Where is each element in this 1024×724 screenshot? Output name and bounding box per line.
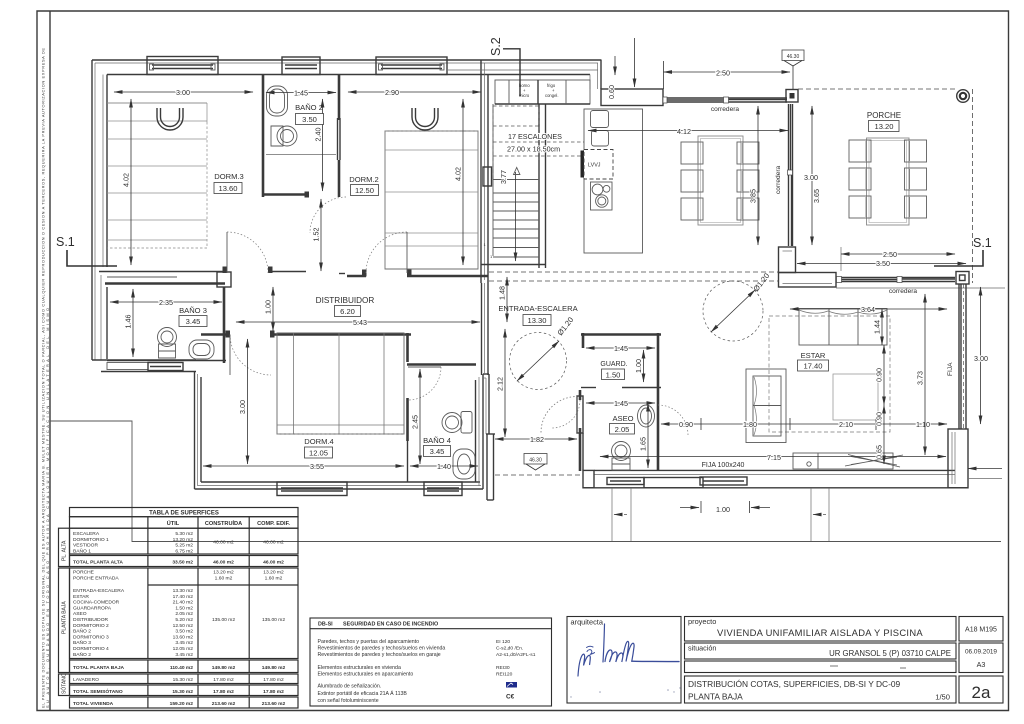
svg-text:Revestimientos de paredes y te: Revestimientos de paredes y techos/suelo… — [318, 652, 441, 658]
svg-text:149.80 m2: 149.80 m2 — [262, 665, 286, 671]
bed dorm3 — [107, 86, 903, 479]
svg-text:46.00 m2: 46.00 m2 — [263, 540, 284, 546]
circulation circle living — [703, 281, 763, 341]
svg-text:BAÑO 1: BAÑO 1 — [73, 547, 91, 554]
dorm4 north wall — [201, 333, 230, 336]
dim 3.73 — [924, 294, 926, 455]
window banio3 south sill — [148, 363, 183, 371]
wall inner line east of window3 — [448, 69, 598, 71]
dorm3 headboard arc — [157, 108, 183, 130]
sofa left vertical — [746, 369, 786, 443]
dim 3.85 — [757, 106, 759, 245]
level marker 46.30 top — [782, 50, 804, 89]
svg-text:congel.: congel. — [545, 93, 559, 98]
svg-text:1.60 m2: 1.60 m2 — [215, 575, 233, 581]
svg-text:0.60: 0.60 — [607, 85, 616, 99]
svg-text:213.60 m2: 213.60 m2 — [212, 701, 236, 707]
svg-text:ASEO: ASEO — [612, 414, 633, 423]
svg-text:1.48: 1.48 — [498, 286, 507, 300]
total planta alta — [70, 556, 299, 567]
circulation circle entry — [510, 333, 567, 390]
svg-text:ÚTIL: ÚTIL — [167, 520, 180, 527]
banio3 north dark band — [105, 282, 225, 285]
svg-text:33.50 m2: 33.50 m2 — [172, 560, 193, 566]
entrada west wall — [481, 283, 483, 375]
svg-text:VESTIDOR: VESTIDOR — [73, 543, 98, 549]
east wall of banio4 — [475, 380, 477, 482]
dim 0.90 estar a — [883, 345, 885, 405]
svg-text:con señal fotoluminiscente: con señal fotoluminiscente — [318, 698, 379, 704]
svg-text:159.20 m2: 159.20 m2 — [170, 701, 194, 707]
dim 1.40 banio4 — [410, 465, 478, 467]
southwest jog wall — [92, 359, 196, 361]
svg-text:4.02: 4.02 — [454, 167, 463, 181]
svg-text:0.90: 0.90 — [875, 368, 884, 382]
stair solid treads — [493, 180, 539, 258]
svg-text:13.60: 13.60 — [218, 184, 237, 193]
window fija east — [958, 284, 960, 429]
svg-text:BAÑO 2: BAÑO 2 — [295, 103, 323, 112]
svg-text:SÓTANO: SÓTANO — [61, 673, 68, 694]
total semisotano — [70, 685, 299, 696]
svg-text:135.00 m2: 135.00 m2 — [212, 617, 235, 623]
svg-text:1.46: 1.46 — [124, 315, 133, 329]
svg-text:situación: situación — [688, 644, 716, 653]
svg-text:4.12: 4.12 — [677, 127, 691, 136]
banio4 north wall — [407, 363, 476, 366]
svg-text:15.30 m2: 15.30 m2 — [173, 677, 194, 683]
svg-text:PORCHE: PORCHE — [73, 570, 95, 576]
svg-text:2.40: 2.40 — [314, 128, 323, 142]
svg-text:1.50: 1.50 — [606, 371, 621, 380]
svg-text:UR GRANSOL 5 (P) 03710 CALPE: UR GRANSOL 5 (P) 03710 CALPE — [829, 649, 951, 658]
aseo toilet — [612, 442, 631, 461]
svg-text:TOTAL PLANTA BAJA: TOTAL PLANTA BAJA — [73, 665, 125, 671]
door dorm2 arc — [366, 232, 407, 273]
banio2 / dorm2 divider — [338, 75, 341, 121]
dim 1.65 aseo — [647, 403, 649, 468]
arquitecta box — [567, 617, 681, 704]
svg-text:12.50: 12.50 — [355, 186, 374, 195]
banio2 south wall — [263, 193, 309, 196]
dim 1.82 entry — [495, 438, 577, 440]
svg-text:C-s2,d0 /En.: C-s2,d0 /En. — [496, 646, 523, 652]
svg-text:DISTRIBUIDOR: DISTRIBUIDOR — [73, 617, 109, 623]
dim 4.02 dorm2 — [462, 99, 464, 265]
svg-text:TABLA DE SUPERFICES: TABLA DE SUPERFICES — [149, 511, 219, 517]
svg-text:17.80 m2: 17.80 m2 — [263, 677, 284, 683]
dashed line entry south — [495, 474, 583, 476]
svg-text:ENTRADA-ESCALERA: ENTRADA-ESCALERA — [73, 588, 125, 594]
svg-text:2.90: 2.90 — [385, 88, 399, 97]
svg-text:FIJA: FIJA — [947, 362, 954, 376]
tv sideboard — [793, 453, 893, 469]
svg-text:PL. ALTA: PL. ALTA — [62, 540, 68, 561]
svg-text:13.30 m2: 13.30 m2 — [173, 588, 194, 594]
svg-text:3.45 m2: 3.45 m2 — [175, 640, 193, 646]
svg-text:1.60 m2: 1.60 m2 — [265, 575, 283, 581]
svg-text:5.20 m2: 5.20 m2 — [175, 617, 193, 623]
west exterior wall — [91, 60, 93, 360]
banio3 south wall interior — [107, 360, 226, 362]
stair block east wall — [538, 104, 540, 268]
date box — [959, 643, 1003, 673]
banio3 toilet — [158, 328, 177, 347]
living NE corner L wall — [779, 247, 796, 273]
svg-text:DORM.4: DORM.4 — [304, 437, 334, 446]
window fija south — [700, 477, 747, 485]
svg-text:17.40 m2: 17.40 m2 — [173, 594, 194, 600]
estar rug dashed — [769, 316, 890, 432]
dim 1.48 entrada — [506, 277, 508, 322]
kitchen island — [584, 109, 643, 253]
guard walls — [581, 333, 661, 336]
svg-text:ESCALERA: ESCALERA — [73, 531, 100, 537]
svg-text:COMP. EDIF.: COMP. EDIF. — [257, 521, 290, 527]
pillar lines below left — [612, 488, 829, 541]
svg-text:S.2: S.2 — [489, 37, 503, 56]
north exterior wall outer leaf — [92, 60, 1005, 501]
svg-text:LVVJ: LVVJ — [588, 163, 601, 169]
svg-text:21.40 m2: 21.40 m2 — [173, 600, 194, 606]
sofa top horizontal — [799, 309, 887, 346]
svg-text:Revestimientos de paredes y te: Revestimientos de paredes y techos/suelo… — [318, 646, 446, 652]
blank box — [685, 661, 957, 673]
svg-text:BAÑO 4: BAÑO 4 — [423, 436, 451, 445]
entry recess south wall — [483, 373, 489, 375]
svg-text:1/50: 1/50 — [935, 693, 950, 702]
svg-text:2.12: 2.12 — [496, 377, 505, 391]
ceiling dashed lines greatroom — [489, 271, 779, 273]
svg-text:A2-s1,d0/A2FL-s1: A2-s1,d0/A2FL-s1 — [496, 652, 536, 658]
svg-text:4.02: 4.02 — [122, 173, 131, 187]
proyecto box — [685, 617, 957, 642]
banio2 toilet — [271, 126, 283, 146]
svg-text:1.50 m2: 1.50 m2 — [175, 605, 193, 611]
svg-text:0.90: 0.90 — [875, 412, 884, 426]
main entry door arc — [541, 397, 577, 433]
coffee table — [833, 374, 878, 420]
svg-text:corredera: corredera — [711, 106, 740, 113]
DB-SI fire safety box — [310, 618, 552, 706]
svg-text:DORM.3: DORM.3 — [214, 172, 244, 181]
svg-text:12.05: 12.05 — [309, 449, 328, 458]
dim 3.00+3.65 porch w — [811, 106, 813, 245]
svg-text:1.65: 1.65 — [639, 437, 648, 451]
svg-text:1.45: 1.45 — [294, 89, 308, 98]
dishwasher black bar — [581, 151, 586, 178]
svg-text:1.52: 1.52 — [312, 228, 321, 242]
group planta alta — [70, 528, 299, 554]
svg-text:corredera: corredera — [889, 288, 918, 295]
dorm4 west wall — [194, 372, 196, 490]
svg-text:2.50: 2.50 — [883, 250, 897, 259]
left rotated group labels — [59, 528, 70, 566]
svg-text:3.73: 3.73 — [916, 371, 925, 385]
banio4 sink oval — [453, 449, 475, 479]
svg-text:CONSTRUÍDA: CONSTRUÍDA — [205, 519, 242, 527]
dim 2.50 porch n — [664, 71, 791, 73]
svg-text:3.85: 3.85 — [749, 189, 758, 203]
svg-text:PORCHE: PORCHE — [867, 111, 901, 120]
dim 3.55 dorm4 — [203, 465, 404, 467]
corredera west porch (vertical sliding) — [788, 104, 790, 246]
aseo walls — [579, 390, 582, 400]
total planta baja — [70, 660, 299, 673]
niche dorm2 east wall — [483, 167, 492, 186]
svg-text:PLANTA BAJA: PLANTA BAJA — [688, 692, 743, 702]
porch chairs left — [849, 140, 927, 218]
title block — [567, 617, 1003, 704]
svg-text:2.05: 2.05 — [615, 425, 630, 434]
window dorm3 north — [147, 57, 973, 496]
svg-text:DORMITORIO 2: DORMITORIO 2 — [73, 623, 109, 629]
svg-text:ASEO: ASEO — [73, 611, 87, 617]
svg-text:46.30: 46.30 — [787, 54, 800, 60]
svg-text:1.00: 1.00 — [716, 505, 730, 514]
svg-text:SEGURIDAD EN CASO DE INCEN: SEGURIDAD EN CASO DE INCENDIO — [343, 622, 438, 628]
svg-text:Paredes, techos y puertas del: Paredes, techos y puertas del aparcamien… — [318, 639, 420, 645]
svg-text:0.90: 0.90 — [679, 420, 693, 429]
svg-text:3.00: 3.00 — [176, 88, 190, 97]
svg-text:A3: A3 — [977, 660, 986, 669]
plano box — [685, 676, 957, 703]
svg-text:GUARDARROPA: GUARDARROPA — [73, 605, 112, 611]
svg-text:REI30: REI30 — [496, 665, 510, 671]
dim 2.12 entry — [504, 329, 506, 437]
svg-text:2.35: 2.35 — [159, 298, 173, 307]
svg-text:2a: 2a — [972, 683, 991, 702]
svg-text:2.05 m2: 2.05 m2 — [175, 611, 193, 617]
stairs — [484, 104, 585, 261]
section ground line — [50, 421, 1001, 542]
svg-text:EI 120: EI 120 — [496, 639, 510, 645]
svg-text:3.00: 3.00 — [238, 400, 247, 414]
svg-text:S.1: S.1 — [56, 235, 75, 249]
svg-text:149.80 m2: 149.80 m2 — [212, 665, 236, 671]
svg-text:DORM.2: DORM.2 — [349, 175, 379, 184]
svg-text:6.75 m2: 6.75 m2 — [175, 548, 193, 554]
svg-text:3.50: 3.50 — [876, 259, 890, 268]
dim 3.50 porch se — [797, 263, 966, 265]
kitchen counter row top — [495, 80, 643, 253]
svg-text:13.60 m2: 13.60 m2 — [173, 634, 194, 640]
svg-text:PLANTA BAJA: PLANTA BAJA — [62, 601, 68, 634]
dim 1.45 banio2 — [266, 92, 336, 94]
svg-text:135.00 m2: 135.00 m2 — [262, 617, 285, 623]
porch dashed boundary top — [798, 88, 957, 90]
svg-text:DORMITORIO 3: DORMITORIO 3 — [73, 634, 109, 640]
window banio4 south — [424, 482, 462, 496]
aseo washbasin — [638, 405, 655, 427]
banio2 shower tray — [267, 86, 288, 116]
svg-text:ENTRADA-ESCALERA: ENTRADA-ESCALERA — [498, 304, 578, 313]
interior wall banio2 west — [262, 75, 265, 198]
banio3 east wall — [217, 272, 231, 287]
svg-text:DISTRIBUCIÓN COTAS, SUPERFICIE: DISTRIBUCIÓN COTAS, SUPERFICIES, DB-SI Y… — [688, 679, 901, 689]
svg-text:213.60 m2: 213.60 m2 — [262, 701, 286, 707]
svg-text:12.05 m2: 12.05 m2 — [173, 646, 194, 652]
svg-text:46.00 m2: 46.00 m2 — [213, 560, 234, 566]
door banio2 leaf+arc — [337, 118, 339, 160]
svg-text:C€: C€ — [506, 694, 515, 701]
svg-text:DB-SI: DB-SI — [318, 622, 333, 628]
svg-text:1.00: 1.00 — [264, 300, 273, 314]
south wall entry to living — [594, 469, 955, 471]
svg-text:TOTAL VIVIENDA: TOTAL VIVIENDA — [73, 701, 114, 707]
signature blue — [578, 624, 679, 676]
dim 1.45 aseo — [586, 402, 655, 404]
tv set diagonal — [845, 455, 903, 468]
room label dorm3 — [179, 103, 954, 469]
svg-text:06.09.2019: 06.09.2019 — [965, 649, 997, 656]
blue exit sign icon — [506, 682, 517, 688]
svg-text:3.50: 3.50 — [302, 115, 317, 124]
svg-text:S.1: S.1 — [973, 236, 992, 250]
code box — [959, 617, 1003, 642]
svg-text:13.20 m2: 13.20 m2 — [263, 570, 284, 576]
svg-text:1.45: 1.45 — [614, 344, 628, 353]
svg-text:5.43: 5.43 — [353, 318, 367, 327]
east wall bottom corner — [948, 429, 968, 488]
svg-text:LAVADERO: LAVADERO — [73, 677, 99, 683]
svg-text:REI120: REI120 — [496, 672, 513, 678]
svg-text:3.00: 3.00 — [804, 173, 818, 182]
svg-text:3.45: 3.45 — [186, 317, 201, 326]
dim 0.90 estar b — [883, 405, 885, 464]
svg-text:VIVIENDA UNIFAMILIAR AISLADA Y: VIVIENDA UNIFAMILIAR AISLADA Y PISCINA — [717, 627, 923, 638]
svg-text:13.30: 13.30 — [527, 316, 546, 325]
dining chairs left — [681, 142, 759, 220]
svg-text:7.15: 7.15 — [767, 453, 781, 462]
svg-text:BAÑO 3: BAÑO 3 — [73, 639, 91, 646]
svg-text:5.30 m2: 5.30 m2 — [175, 531, 193, 537]
svg-text:ESTAR: ESTAR — [801, 351, 826, 360]
dim 1.52 — [320, 199, 322, 271]
dim 1.00 guard — [643, 350, 645, 382]
cooktop — [591, 182, 613, 210]
dim 3.00 dorm3 — [110, 38, 988, 541]
column separators — [148, 517, 249, 708]
dim 2.40 banio2 — [322, 99, 324, 191]
svg-text:1.45: 1.45 — [614, 399, 628, 408]
svg-text:FIJA 100x240: FIJA 100x240 — [702, 462, 745, 469]
svg-text:BAÑO 2: BAÑO 2 — [73, 651, 91, 658]
dim 4.02 dorm3 — [130, 99, 132, 265]
corredera north (top sliding door) — [665, 97, 787, 99]
window banio2 north — [282, 57, 320, 75]
svg-text:2.50: 2.50 — [716, 69, 730, 78]
dim 2.90 dorm2 — [348, 91, 481, 93]
door banio4 arc — [408, 367, 441, 400]
porch post NW — [786, 90, 798, 103]
svg-text:Elementos estructurales en viv: Elementos estructurales en vivienda — [318, 665, 401, 671]
svg-text:17.80 m2: 17.80 m2 — [213, 689, 234, 695]
svg-text:15.30 m2: 15.30 m2 — [172, 689, 193, 695]
svg-text:BAÑO 3: BAÑO 3 — [179, 306, 207, 315]
dorm4/banio4 divider — [406, 333, 409, 362]
left text strip line — [49, 11, 51, 711]
porch dashed boundary east — [972, 89, 974, 283]
svg-text:3.64: 3.64 — [861, 305, 875, 314]
DORM.3 south wall — [99, 271, 227, 273]
svg-text:46.30: 46.30 — [529, 458, 542, 464]
svg-text:3.55: 3.55 — [310, 462, 324, 471]
dim 1.45 guard — [586, 347, 655, 349]
window lavadero south — [607, 478, 644, 485]
dim 7.15 — [600, 456, 946, 458]
post SE of corredera east — [956, 272, 969, 285]
svg-text:proyecto: proyecto — [688, 617, 716, 626]
svg-text:1.00: 1.00 — [634, 359, 643, 373]
svg-text:3.00: 3.00 — [974, 354, 988, 363]
svg-text:17.80 m2: 17.80 m2 — [263, 689, 284, 695]
dim 3.64 estar — [790, 308, 947, 310]
kitchen step wall — [600, 60, 602, 90]
svg-text:PORCHE ENTRADA: PORCHE ENTRADA — [73, 575, 119, 581]
svg-text:BAÑO 2: BAÑO 2 — [73, 628, 91, 635]
LVVJ dashed box — [584, 150, 613, 180]
svg-text:3.77: 3.77 — [499, 170, 508, 184]
svg-text:1.10: 1.10 — [916, 420, 930, 429]
svg-text:TOTAL PLANTA ALTA: TOTAL PLANTA ALTA — [73, 560, 123, 566]
door aseo arc — [552, 400, 580, 428]
svg-text:13.20: 13.20 — [874, 122, 893, 131]
dim 5.43 distribuidor — [236, 321, 480, 323]
door dorm3 arc — [227, 118, 779, 475]
dim 2.35 banio3 — [110, 301, 222, 303]
svg-text:GUARD.: GUARD. — [600, 361, 627, 368]
door dorm4 arc — [230, 335, 271, 376]
dorm2 east wall — [480, 60, 482, 283]
south wall dorm4-banio4 — [195, 488, 484, 490]
svg-text:A18 M195: A18 M195 — [965, 627, 997, 634]
stair direction triangle — [514, 168, 520, 175]
situacion box — [685, 643, 957, 659]
window dorm4 south — [277, 482, 347, 496]
banio3 bidet — [189, 340, 214, 359]
window dorm2 north — [376, 57, 447, 75]
svg-text:2.10: 2.10 — [839, 420, 853, 429]
banio3 west wall — [100, 275, 102, 360]
porch column NE round — [957, 90, 970, 103]
svg-text:46.00 m2: 46.00 m2 — [263, 560, 284, 566]
dorm2 south wall — [347, 275, 366, 278]
svg-text:110.40 m2: 110.40 m2 — [170, 665, 193, 671]
entry door jamb east — [577, 396, 583, 433]
dining table indoor — [698, 136, 743, 225]
svg-text:13.20 m2: 13.20 m2 — [213, 570, 234, 576]
dim 2.50 porch se — [841, 253, 955, 255]
bed dorm4 — [277, 333, 404, 434]
svg-text:arquitecta: arquitecta — [571, 618, 604, 627]
svg-text:3.45: 3.45 — [430, 447, 445, 456]
svg-text:Elementos estructurales en apa: Elementos estructurales en aparcamiento — [318, 672, 414, 678]
dim 3.00 dorm4 — [247, 339, 249, 464]
section S.1 left — [50, 37, 1001, 541]
fridge boxes — [591, 111, 609, 128]
dim chain 0.90 1.80 2.10 1.10 — [661, 423, 947, 425]
svg-text:EL PRESENTE DOCUMENTO ES COPIA: EL PRESENTE DOCUMENTO ES COPIA DE SU ORI… — [41, 48, 46, 708]
svg-text:COCINA-COMEDOR: COCINA-COMEDOR — [73, 600, 120, 606]
svg-text:DISTRIBUIDOR: DISTRIBUIDOR — [316, 296, 375, 305]
svg-text:5.25 m2: 5.25 m2 — [175, 543, 193, 549]
svg-text:3.45 m2: 3.45 m2 — [175, 652, 193, 658]
bed dorm2 — [385, 131, 478, 269]
dorm2 headboard arc — [412, 108, 438, 130]
svg-text:corredera: corredera — [775, 165, 782, 194]
svg-text:1.44: 1.44 — [873, 320, 882, 334]
